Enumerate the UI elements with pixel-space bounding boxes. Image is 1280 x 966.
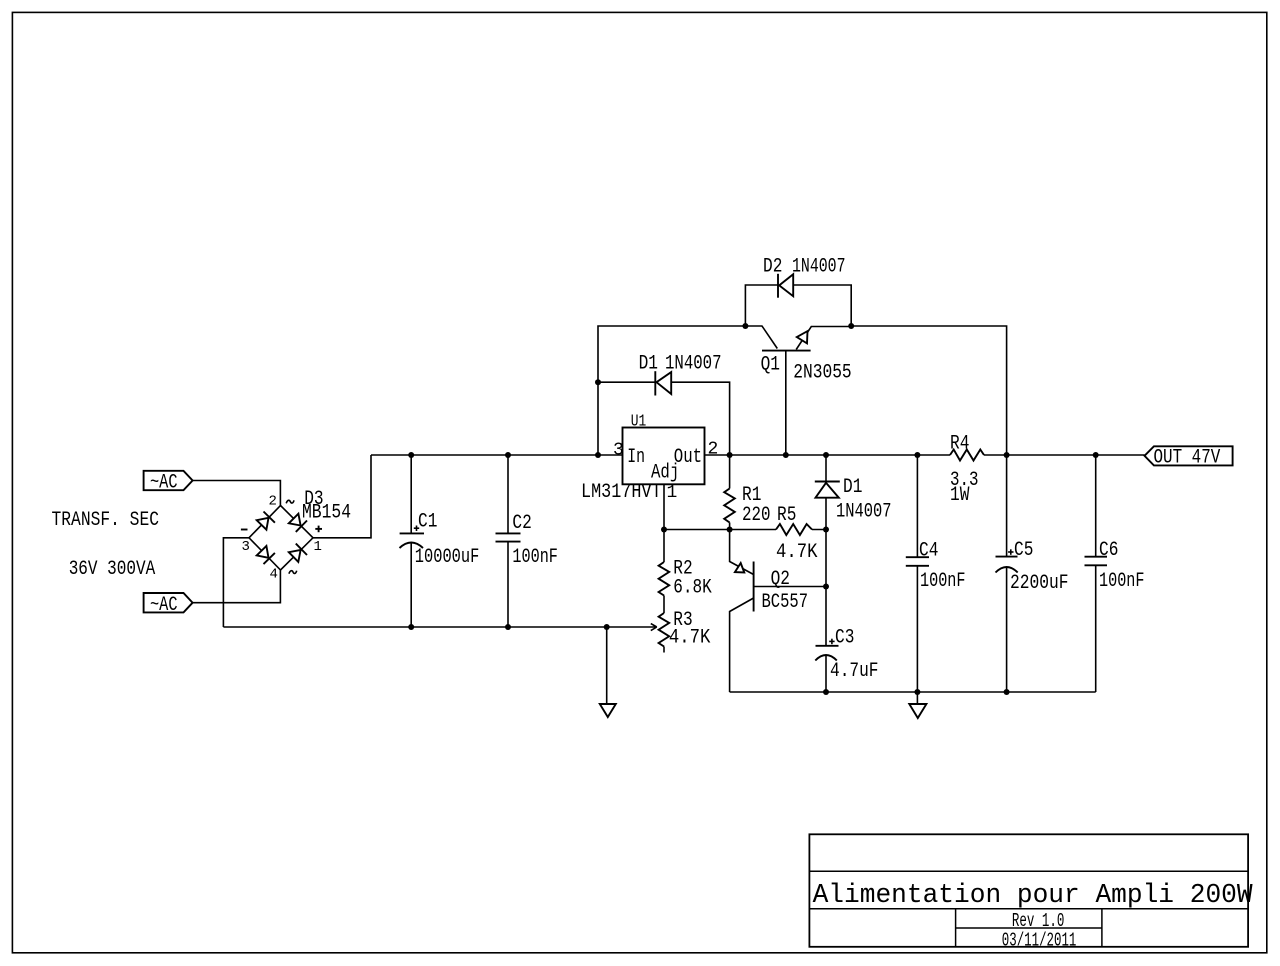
wire D2 loop left vertical (745, 285, 778, 326)
svg-text:D2: D2 (763, 256, 782, 279)
resistor R2 (659, 530, 670, 614)
svg-text:100nF: 100nF (512, 546, 558, 569)
svg-text:BC557: BC557 (762, 591, 809, 614)
R3 wiper arrow (651, 624, 657, 631)
svg-text:4.7K: 4.7K (669, 626, 711, 649)
bridge diode top-right (289, 514, 307, 532)
capacitor C2 (496, 455, 521, 627)
svg-text:C2: C2 (512, 512, 531, 535)
diode D1b vertical (815, 455, 840, 646)
bridge diode top-left (257, 512, 275, 530)
capacitor C3 (815, 639, 838, 692)
junction Q1 emitter node (848, 323, 854, 329)
wire U1 out to R4 (705, 454, 951, 456)
svg-text:2200uF: 2200uF (1010, 572, 1069, 595)
resistor R5 (776, 524, 812, 535)
svg-text:1: 1 (667, 483, 678, 503)
junction C4 main rail (914, 452, 920, 458)
junction C4 bottom rail (914, 689, 920, 695)
wire U1 adj (663, 484, 665, 529)
bridge rectifier D3 diamond (249, 506, 313, 571)
connector OUT 47V (1145, 446, 1233, 469)
svg-text:R4: R4 (950, 433, 969, 456)
svg-text:OUT 47V: OUT 47V (1154, 446, 1221, 469)
svg-text:3: 3 (613, 441, 624, 461)
connector ~AC bottom (144, 593, 193, 617)
svg-text:4.7uF: 4.7uF (830, 660, 879, 683)
diode D1 (598, 371, 730, 455)
ground right (909, 692, 926, 718)
wire main rail left (371, 454, 622, 456)
svg-text:1: 1 (314, 539, 322, 555)
transistor Q2 (730, 530, 826, 693)
svg-text:2: 2 (708, 440, 719, 460)
svg-text:U1: U1 (631, 413, 647, 432)
capacitor C1 (400, 455, 425, 627)
connector ~AC top (144, 471, 193, 495)
junction C2 bottom rail (505, 624, 511, 630)
junction Q1 base main rail (783, 452, 789, 458)
junction D1 branch (595, 379, 601, 385)
svg-text:TRANSF. SEC: TRANSF. SEC (52, 509, 160, 532)
junction C6 main rail (1093, 452, 1099, 458)
svg-text:Alimentation pour Ampli 200W: Alimentation pour Ampli 200W (813, 881, 1254, 911)
svg-text:~AC: ~AC (150, 472, 178, 495)
svg-text:~AC: ~AC (150, 594, 178, 617)
junction Q1 collector node (742, 323, 748, 329)
ground left (600, 627, 616, 717)
capacitor C5 (996, 455, 1018, 692)
bridge diode bottom-right (289, 544, 307, 562)
svg-text:100nF: 100nF (920, 570, 966, 593)
svg-text:C5: C5 (1014, 539, 1033, 562)
svg-text:Q1: Q1 (761, 353, 780, 376)
svg-text:100nF: 100nF (1099, 570, 1145, 593)
capacitor C4 (906, 455, 929, 692)
junction adj-R2 (661, 527, 667, 533)
svg-text:MB154: MB154 (302, 501, 351, 524)
svg-text:6.8K: 6.8K (673, 576, 712, 599)
svg-text:D1: D1 (843, 476, 862, 499)
bridge ac mark top (286, 500, 294, 503)
bridge minus mark (241, 529, 248, 531)
junction C5 bottom rail (1004, 689, 1010, 695)
wire bridge plus to main rail (313, 455, 371, 538)
junction R1 main rail (727, 452, 733, 458)
wire bottom-right rail (730, 691, 1096, 693)
svg-text:C6: C6 (1099, 539, 1118, 562)
junction adj-D1b (823, 527, 829, 533)
transistor Q1 (745, 326, 851, 455)
junction D1 loop main rail (595, 452, 601, 458)
svg-text:2: 2 (269, 493, 277, 509)
junction adj-R1 (727, 527, 733, 533)
svg-text:Q2: Q2 (771, 568, 790, 591)
svg-text:C3: C3 (835, 627, 854, 650)
svg-text:2N3055: 2N3055 (793, 361, 852, 384)
junction C1 bottom rail (408, 624, 414, 630)
svg-text:4: 4 (270, 566, 278, 582)
wire D1 loop left vertical (598, 326, 745, 455)
junction C2 main rail (505, 452, 511, 458)
svg-text:10000uF: 10000uF (415, 546, 480, 569)
junction D1b main rail (823, 452, 829, 458)
svg-text:03/11/2011: 03/11/2011 (1002, 929, 1077, 951)
wire top-right to C5 branch (851, 326, 1006, 455)
svg-text:1N4007: 1N4007 (792, 256, 846, 279)
resistor R4 (950, 450, 984, 461)
wire bottom-left rail (223, 626, 650, 628)
svg-text:1W: 1W (950, 484, 969, 507)
title block frame (809, 834, 1248, 947)
svg-text:1N4007: 1N4007 (836, 501, 892, 524)
junction ground left (604, 624, 610, 630)
capacitor C6 (1085, 455, 1108, 692)
wire main rail right (984, 454, 1145, 456)
svg-text:C4: C4 (919, 540, 938, 563)
svg-text:LM317HVT: LM317HVT (581, 481, 662, 504)
svg-text:R5: R5 (777, 504, 796, 527)
svg-text:D1: D1 (639, 353, 658, 376)
diode D2 (778, 274, 851, 326)
svg-text:36V 300VA: 36V 300VA (69, 558, 156, 581)
wire AC top to bridge pin 2 (193, 481, 281, 507)
junction Q2 base (823, 584, 829, 590)
svg-text:In: In (627, 446, 645, 469)
bridge ac mark bottom (289, 571, 297, 574)
svg-text:4.7K: 4.7K (776, 541, 818, 564)
resistor R1 (724, 455, 735, 530)
wire AC bottom to bridge pin 4 (193, 570, 281, 603)
wire adj rail (664, 529, 826, 531)
svg-text:220: 220 (742, 504, 771, 527)
junction C3 bottom rail (823, 689, 829, 695)
svg-text:1N4007: 1N4007 (665, 353, 722, 376)
op-amp U1 LM317HVT box (623, 428, 705, 485)
junction C5 main rail (1004, 452, 1010, 458)
potentiometer R3 (659, 613, 670, 653)
bridge diode bottom-left (257, 546, 275, 564)
wire bridge minus to bottom-left rail (223, 538, 249, 627)
svg-text:3: 3 (242, 539, 250, 555)
bridge plus mark (315, 526, 322, 533)
svg-text:C1: C1 (418, 511, 437, 534)
junction C1 main rail (408, 452, 414, 458)
